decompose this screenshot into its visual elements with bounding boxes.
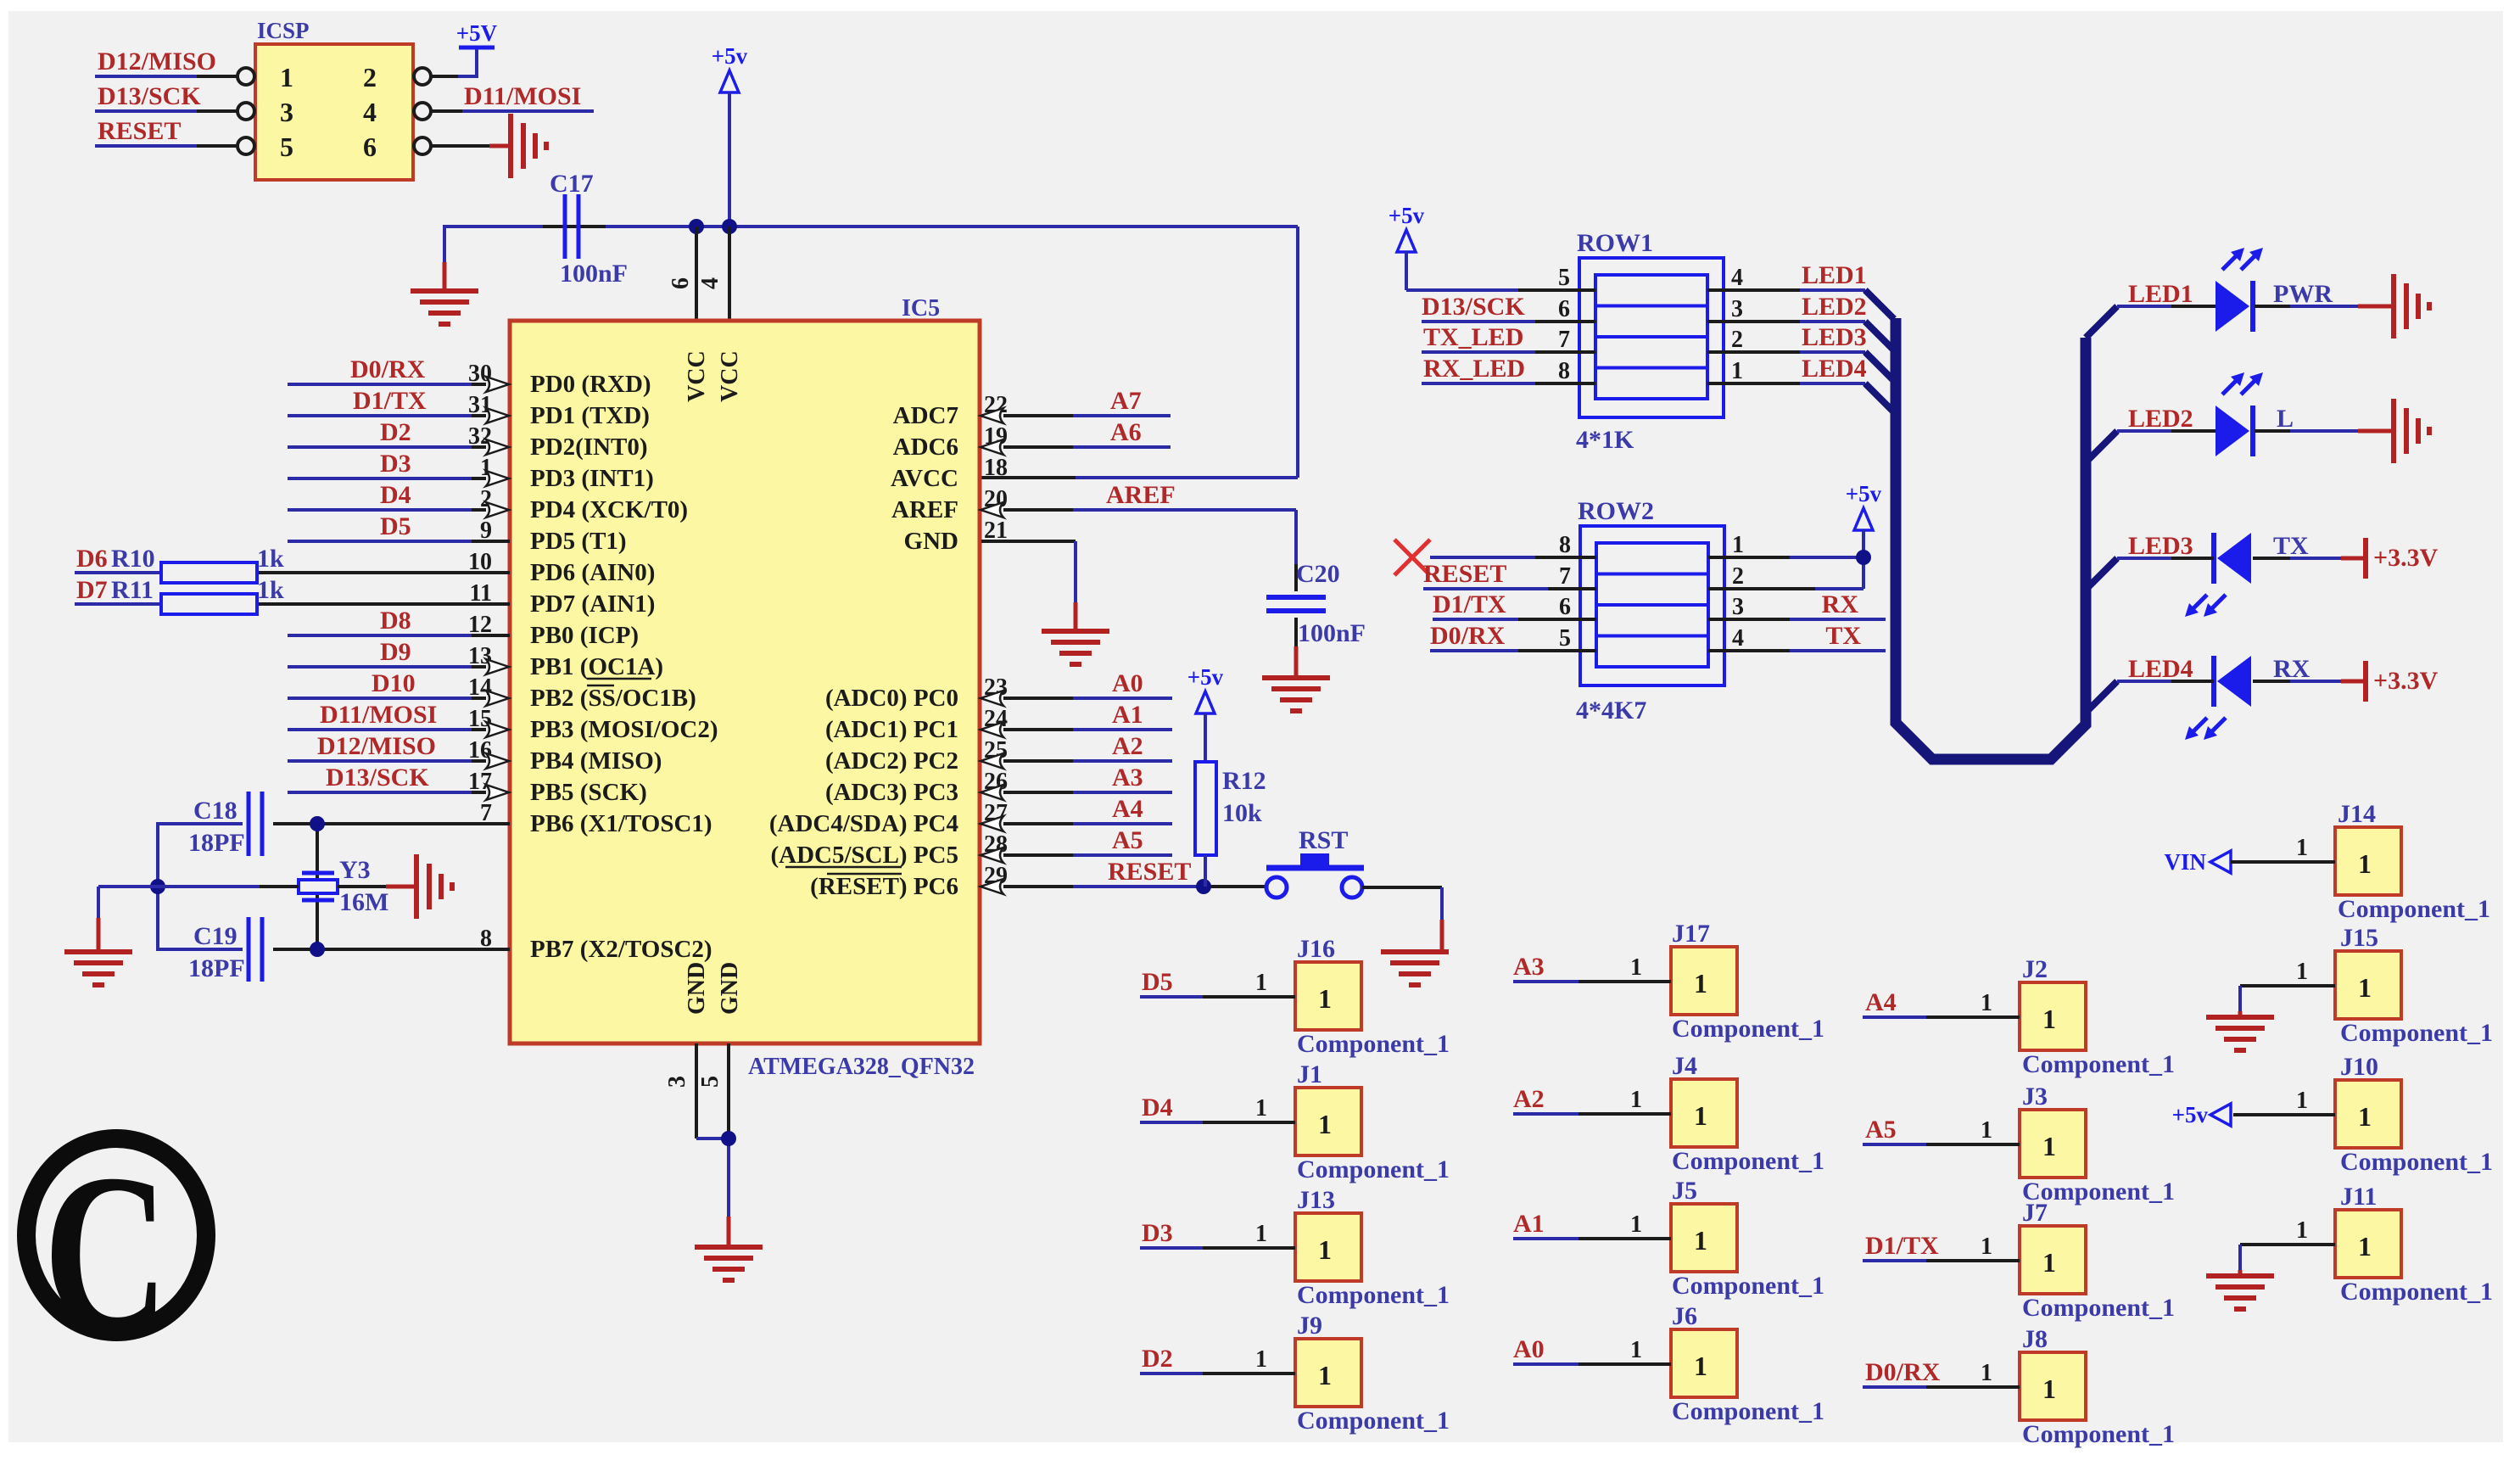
wire net D12/MISO (to PB4)	[288, 732, 486, 761]
wire net A1	[1003, 701, 1172, 730]
wire net TX (ROW2 pin 4)	[1708, 622, 1886, 651]
ground (below C17)	[411, 291, 478, 324]
svg-text:+3.3V: +3.3V	[2373, 544, 2439, 572]
svg-text:GND: GND	[904, 528, 958, 555]
capacitor C20	[1266, 560, 1366, 647]
resistor network ROW1	[1558, 229, 1743, 454]
svg-text:IC5: IC5	[902, 295, 940, 322]
no-connect X (ROW2 pin 8)	[1394, 540, 1596, 575]
svg-text:1: 1	[1255, 970, 1267, 996]
wire J11 to ground	[2240, 1217, 2335, 1276]
wire net A2	[1003, 732, 1172, 761]
svg-text:Component_1: Component_1	[1672, 1397, 1824, 1425]
wire net RESET (ICSP pin 5)	[95, 117, 237, 146]
svg-text:8: 8	[1558, 358, 1570, 384]
svg-text:(ADC5/SCL) PC5: (ADC5/SCL) PC5	[770, 842, 958, 869]
svg-text:LED2: LED2	[2128, 405, 2193, 433]
svg-text:PB2 (SS/OC1B): PB2 (SS/OC1B)	[530, 685, 696, 712]
wire net LED2 (ROW1 pin 3)	[1707, 293, 1867, 322]
svg-text:D9: D9	[380, 638, 411, 666]
svg-text:PB5 (SCK): PB5 (SCK)	[530, 779, 647, 806]
svg-text:ROW2: ROW2	[1578, 497, 1654, 525]
wire net D13/SCK (to PB5)	[288, 764, 486, 792]
svg-text:A1: A1	[1112, 701, 1143, 729]
wire net D12/MISO (ICSP pin 1)	[95, 48, 237, 76]
capacitor C19	[188, 917, 262, 982]
svg-text:J6: J6	[1672, 1302, 1697, 1330]
svg-text:LED3: LED3	[2128, 532, 2193, 560]
svg-text:3: 3	[1731, 296, 1743, 322]
pin number 6	[668, 277, 694, 289]
wire net LED4 (ROW1 pin 1)	[1707, 355, 1867, 383]
svg-text:R11: R11	[111, 576, 154, 604]
svg-text:J11: J11	[2340, 1183, 2377, 1211]
svg-text:TX_LED: TX_LED	[1423, 323, 1523, 351]
svg-text:4*1K: 4*1K	[1576, 426, 1634, 454]
wire net D4 (to J1)	[1140, 1094, 1295, 1122]
svg-text:A6: A6	[1110, 418, 1142, 446]
svg-text:LED3: LED3	[1802, 323, 1867, 351]
svg-text:Component_1: Component_1	[2340, 1019, 2493, 1047]
svg-text:1: 1	[2296, 959, 2308, 985]
svg-text:+5v: +5v	[1389, 203, 1425, 228]
svg-text:Component_1: Component_1	[1672, 1147, 1824, 1175]
svg-text:RST: RST	[1299, 826, 1348, 854]
svg-text:RX: RX	[2273, 655, 2310, 683]
wire net D1/TX (ROW2 pin 6)	[1433, 590, 1596, 619]
connector J14	[2335, 800, 2490, 923]
wire net D2	[288, 418, 486, 447]
wire net XTAL2 (PB7)	[158, 887, 510, 951]
svg-text:1: 1	[2042, 1004, 2056, 1034]
power +5v (ROW1 pin 5)	[1389, 203, 1595, 290]
connector J7	[2020, 1199, 2175, 1322]
svg-text:VCC: VCC	[684, 350, 710, 402]
svg-text:Component_1: Component_1	[2022, 1050, 2175, 1078]
wire net A0	[1003, 669, 1172, 698]
wire net A3	[1003, 764, 1172, 792]
svg-text:4: 4	[1732, 625, 1744, 652]
svg-text:PB7 (X2/TOSC2): PB7 (X2/TOSC2)	[530, 936, 712, 963]
wire IC GND pins 3 and 5	[696, 1043, 729, 1247]
svg-text:Component_1: Component_1	[2022, 1420, 2175, 1448]
svg-text:LED4: LED4	[1802, 355, 1867, 383]
junction node GND pins	[721, 1131, 736, 1146]
svg-text:1: 1	[1630, 1087, 1642, 1113]
svg-text:VCC: VCC	[717, 350, 743, 402]
svg-text:1: 1	[1318, 1234, 1332, 1265]
svg-text:D3: D3	[1142, 1219, 1173, 1247]
svg-text:AREF: AREF	[1106, 481, 1176, 509]
svg-text:D10: D10	[372, 669, 416, 697]
svg-text:PB0 (ICP): PB0 (ICP)	[530, 622, 639, 649]
wire RST to ground	[1362, 887, 1442, 952]
svg-text:100nF: 100nF	[560, 260, 628, 288]
svg-text:1: 1	[2358, 848, 2372, 879]
wire net D4	[288, 481, 486, 510]
svg-text:(ADC4/SDA) PC4: (ADC4/SDA) PC4	[769, 810, 958, 837]
svg-text:1: 1	[1694, 1100, 1707, 1131]
power +5v (above R12)	[1187, 664, 1224, 762]
svg-text:TX: TX	[1825, 622, 1861, 650]
connector J16	[1295, 935, 1450, 1058]
svg-text:10k: 10k	[1222, 799, 1262, 827]
svg-text:J1: J1	[1297, 1060, 1322, 1088]
wire crystal vertical link	[316, 824, 319, 949]
wire net RX (ROW2 pin 3)	[1708, 590, 1886, 619]
svg-text:PB3 (MOSI/OC2): PB3 (MOSI/OC2)	[530, 716, 718, 743]
svg-text:7: 7	[1559, 563, 1571, 590]
svg-text:J2: J2	[2022, 955, 2048, 983]
power +5v (above IC)	[712, 43, 748, 227]
svg-text:A7: A7	[1110, 387, 1142, 415]
led LED4 RX	[2117, 655, 2364, 740]
svg-text:6: 6	[1558, 296, 1570, 322]
svg-text:Component_1: Component_1	[1672, 1015, 1824, 1043]
power +3.3V (LED4)	[2366, 661, 2439, 702]
connector J8	[2020, 1325, 2175, 1448]
svg-text:A1: A1	[1513, 1210, 1545, 1238]
power VIN (to J14)	[2164, 835, 2335, 875]
svg-text:J3: J3	[2022, 1083, 2048, 1111]
wire net RX_LED (ROW1 pin 8)	[1422, 355, 1595, 383]
svg-text:D13/SCK: D13/SCK	[1422, 293, 1525, 321]
svg-text:+5v: +5v	[712, 43, 748, 69]
svg-text:PB1 (OC1A): PB1 (OC1A)	[530, 653, 663, 680]
svg-text:1: 1	[1630, 1337, 1642, 1363]
wire net A2 (to J4)	[1513, 1085, 1671, 1114]
svg-text:5: 5	[1558, 265, 1570, 291]
svg-text:ICSP: ICSP	[257, 18, 310, 43]
wire net D13/SCK (ROW1 pin 6)	[1422, 293, 1595, 322]
led LED2 L	[2117, 372, 2392, 456]
svg-text:8: 8	[1559, 532, 1571, 558]
svg-text:4: 4	[697, 277, 724, 289]
svg-text:3: 3	[664, 1076, 690, 1088]
svg-text:+5v: +5v	[1846, 481, 1882, 506]
svg-text:PD6 (AIN0): PD6 (AIN0)	[530, 559, 655, 586]
svg-text:RESET: RESET	[98, 117, 181, 145]
wire net GND pin 21	[981, 541, 1076, 631]
pin number 5	[697, 1076, 724, 1088]
svg-text:J17: J17	[1672, 920, 1710, 948]
IC5 right pin names and numbers	[769, 392, 1008, 900]
svg-text:D11/MOSI: D11/MOSI	[320, 701, 437, 729]
bus LED1-LED4 trunk	[1865, 290, 2117, 759]
svg-text:RESET: RESET	[1423, 560, 1506, 588]
svg-text:Component_1: Component_1	[1672, 1272, 1824, 1300]
svg-text:+3.3V: +3.3V	[2373, 667, 2439, 695]
svg-text:J5: J5	[1672, 1177, 1697, 1205]
svg-text:(ADC1) PC1: (ADC1) PC1	[825, 716, 958, 743]
svg-text:1: 1	[2042, 1131, 2056, 1161]
svg-text:(ADC3) PC3: (ADC3) PC3	[825, 779, 958, 806]
svg-text:1: 1	[1255, 1221, 1267, 1247]
svg-text:3: 3	[280, 97, 293, 127]
svg-text:+5v: +5v	[1187, 664, 1224, 690]
svg-text:C17: C17	[550, 170, 594, 198]
connector J5	[1671, 1177, 1824, 1300]
ground (LED2)	[2394, 399, 2429, 463]
svg-text:6: 6	[1559, 594, 1571, 620]
connector J9	[1295, 1312, 1450, 1435]
resistor R10	[161, 545, 284, 583]
svg-text:A4: A4	[1865, 988, 1897, 1016]
svg-text:J10: J10	[2340, 1053, 2378, 1081]
svg-text:D8: D8	[380, 607, 411, 635]
svg-text:Component_1: Component_1	[1297, 1407, 1450, 1435]
led LED1 PWR	[2117, 248, 2392, 332]
svg-text:18: 18	[984, 455, 1008, 481]
svg-text:Component_1: Component_1	[2338, 895, 2490, 923]
connector ICSP	[237, 18, 431, 180]
wire net LED3 (ROW1 pin 2)	[1707, 323, 1867, 352]
pin number 4	[697, 277, 724, 289]
svg-text:D7: D7	[76, 576, 108, 604]
wire net D0/RX (ROW2 pin 5)	[1430, 622, 1596, 651]
svg-text:D12/MISO: D12/MISO	[317, 732, 436, 760]
svg-text:2: 2	[1731, 327, 1743, 353]
wire net D1/TX (to J7)	[1863, 1232, 2020, 1261]
svg-text:1: 1	[1694, 1351, 1707, 1381]
connector J2	[2020, 955, 2175, 1078]
wire net D13/SCK (ICSP pin 3)	[95, 82, 237, 111]
ground (LED1)	[2394, 274, 2429, 338]
wire net A7	[1003, 387, 1171, 416]
svg-text:100nF: 100nF	[1298, 619, 1366, 647]
svg-text:D0/RX: D0/RX	[1430, 622, 1506, 650]
svg-text:C19: C19	[193, 922, 237, 950]
svg-text:1: 1	[2042, 1373, 2056, 1404]
wire net A0 (to J6)	[1513, 1335, 1671, 1364]
svg-text:J14: J14	[2338, 800, 2376, 828]
svg-text:2: 2	[363, 62, 377, 92]
connector J6	[1671, 1302, 1824, 1425]
svg-text:1: 1	[1255, 1346, 1267, 1373]
svg-text:1: 1	[1318, 983, 1332, 1014]
svg-text:+5v: +5v	[2172, 1102, 2209, 1127]
ground (IC pin 21)	[1042, 631, 1109, 664]
power +5v (to J10)	[2172, 1088, 2335, 1127]
wire R12 to RESET net	[1204, 855, 1207, 887]
wire to crystal left ground	[98, 887, 158, 952]
svg-text:PD2(INT0): PD2(INT0)	[530, 434, 648, 461]
junction node PB7-crystal	[310, 942, 325, 957]
wire net D5	[288, 512, 510, 541]
ground (J15)	[2206, 1017, 2274, 1050]
wire net LED1 (ROW1 pin 4)	[1707, 261, 1867, 290]
wire net D10	[288, 669, 486, 698]
wire net D0/RX (to J8)	[1863, 1358, 2020, 1387]
connector J15	[2335, 924, 2493, 1047]
pushbutton RST	[1266, 826, 1364, 898]
svg-text:1: 1	[1731, 358, 1743, 384]
svg-text:D2: D2	[380, 418, 411, 446]
svg-text:4: 4	[1731, 265, 1743, 291]
svg-text:RX: RX	[1822, 590, 1859, 618]
svg-text:A0: A0	[1513, 1335, 1545, 1363]
svg-text:1: 1	[1630, 954, 1642, 981]
svg-text:D2: D2	[1142, 1345, 1173, 1373]
svg-text:AVCC: AVCC	[891, 465, 958, 492]
svg-text:VIN: VIN	[2164, 849, 2206, 875]
wire net D1/TX	[288, 387, 486, 416]
connector J1	[1295, 1060, 1450, 1183]
ground (crystal case)	[416, 854, 452, 919]
svg-text:1: 1	[1694, 1225, 1707, 1256]
svg-text:D13/SCK: D13/SCK	[326, 764, 429, 792]
wire net D11/MOSI (ICSP pin 4)	[431, 82, 594, 111]
connector J4	[1671, 1052, 1824, 1175]
svg-text:1: 1	[2296, 1088, 2308, 1114]
svg-text:PD7 (AIN1): PD7 (AIN1)	[530, 590, 655, 618]
svg-text:AREF: AREF	[891, 496, 958, 523]
svg-text:18PF: 18PF	[188, 829, 245, 857]
svg-text:7: 7	[1558, 327, 1570, 353]
resistor R12	[1195, 762, 1266, 855]
svg-text:C18: C18	[193, 797, 237, 825]
svg-text:(ADC2) PC2: (ADC2) PC2	[825, 747, 958, 775]
wire net A1 (to J5)	[1513, 1210, 1671, 1239]
svg-text:Y3: Y3	[339, 856, 371, 884]
IC5 left pin names and numbers	[468, 361, 718, 963]
svg-text:3: 3	[1732, 594, 1744, 620]
ground (below C20)	[1262, 678, 1330, 711]
svg-text:D1/TX: D1/TX	[1433, 590, 1506, 618]
wire net D2 (to J9)	[1140, 1345, 1295, 1373]
wire net A4	[1003, 795, 1172, 824]
svg-text:D12/MISO: D12/MISO	[98, 48, 216, 76]
svg-text:D1/TX: D1/TX	[1865, 1232, 1939, 1260]
svg-text:TX: TX	[2273, 532, 2309, 560]
svg-text:D0/RX: D0/RX	[1865, 1358, 1941, 1386]
svg-text:J8: J8	[2022, 1325, 2048, 1353]
wire net AREF	[1003, 481, 1296, 591]
wire net A5	[1003, 826, 1172, 855]
junction node C18/C19 ground	[150, 879, 165, 894]
wire net A3 (to J17)	[1513, 953, 1671, 982]
svg-text:1: 1	[1981, 990, 1992, 1016]
wire net D7 with resistor feed	[75, 576, 510, 604]
capacitor C17	[550, 170, 628, 288]
wire net D3 (to J13)	[1140, 1219, 1295, 1248]
svg-text:4: 4	[363, 97, 377, 127]
svg-text:J13: J13	[1297, 1186, 1335, 1214]
wire crystal case ground	[158, 885, 415, 888]
svg-text:D4: D4	[380, 481, 411, 509]
svg-text:C: C	[43, 1127, 169, 1374]
svg-text:PB4 (MISO): PB4 (MISO)	[530, 747, 662, 775]
svg-text:LED1: LED1	[1802, 261, 1867, 289]
svg-text:D13/SCK: D13/SCK	[98, 82, 201, 110]
svg-text:6: 6	[668, 277, 694, 289]
wire IC pin 4 VCC stub	[728, 227, 731, 321]
junction node VCC pins	[689, 219, 737, 234]
wire net D5 (to J16)	[1140, 968, 1295, 997]
svg-text:R12: R12	[1222, 767, 1266, 795]
svg-text:A2: A2	[1513, 1085, 1545, 1113]
svg-text:(RESET) PC6: (RESET) PC6	[810, 873, 958, 900]
ground (J11)	[2206, 1276, 2274, 1309]
wire net D3	[288, 450, 486, 478]
svg-text:ATMEGA328_QFN32: ATMEGA328_QFN32	[748, 1054, 975, 1080]
wire net D9	[288, 638, 486, 667]
svg-text:PD0 (RXD): PD0 (RXD)	[530, 371, 651, 398]
junction node RESET/R12	[1196, 879, 1211, 894]
wire net +5v rail (C17 to VCC and AVCC)	[444, 225, 1298, 478]
svg-text:A3: A3	[1112, 764, 1143, 792]
svg-text:PD5 (T1): PD5 (T1)	[530, 528, 627, 555]
wire net RESET (ROW2 pin 7)	[1423, 560, 1596, 589]
svg-text:J15: J15	[2340, 924, 2378, 952]
svg-text:1: 1	[2358, 972, 2372, 1003]
capacitor C18	[188, 792, 262, 857]
svg-text:1: 1	[280, 62, 293, 92]
svg-text:Component_1: Component_1	[1297, 1030, 1450, 1058]
ground (crystal circuit)	[64, 952, 132, 985]
svg-text:(ADC0) PC0: (ADC0) PC0	[825, 685, 958, 712]
connector J10	[2335, 1053, 2493, 1176]
wire net A6	[1003, 418, 1171, 447]
svg-text:PD4 (XCK/T0): PD4 (XCK/T0)	[530, 496, 688, 523]
connector J17	[1671, 920, 1824, 1043]
wire net D6 with resistor feed	[75, 545, 510, 573]
ground (IC bottom)	[695, 1247, 763, 1280]
power +3.3V (LED3)	[2366, 538, 2439, 579]
svg-text:A5: A5	[1865, 1116, 1897, 1144]
svg-text:LED1: LED1	[2128, 280, 2193, 308]
svg-text:D6: D6	[76, 545, 108, 573]
ground (ICSP pin 6)	[431, 114, 546, 178]
power +5v (ROW2 pins 1-2)	[1708, 481, 1882, 589]
svg-text:6: 6	[363, 131, 377, 162]
svg-text:D5: D5	[380, 512, 411, 540]
power +5V (ICSP pin 2)	[431, 20, 498, 78]
svg-text:Component_1: Component_1	[1297, 1281, 1450, 1309]
svg-text:J7: J7	[2022, 1199, 2048, 1227]
svg-text:A0: A0	[1112, 669, 1143, 697]
svg-text:1k: 1k	[257, 576, 284, 604]
svg-text:18PF: 18PF	[188, 954, 245, 982]
svg-text:RESET: RESET	[1108, 858, 1191, 886]
svg-text:D5: D5	[1142, 968, 1173, 996]
svg-text:Component_1: Component_1	[1297, 1155, 1450, 1183]
pin number 3	[664, 1076, 690, 1088]
svg-text:1: 1	[1981, 1234, 1992, 1260]
resistor network ROW2	[1559, 497, 1744, 725]
svg-text:5: 5	[697, 1076, 724, 1088]
svg-text:LED2: LED2	[1802, 293, 1867, 321]
crystal Y3	[299, 856, 388, 916]
junction node PB6-crystal	[310, 816, 325, 831]
svg-text:Component_1: Component_1	[2340, 1148, 2493, 1176]
svg-text:GND: GND	[684, 962, 710, 1015]
wire IC pin 6 VCC stub	[695, 227, 698, 321]
svg-text:L: L	[2277, 405, 2294, 433]
svg-text:16M: 16M	[339, 888, 388, 916]
ic IC5 ATMEGA328_QFN32 body	[510, 295, 980, 1080]
svg-text:ROW1: ROW1	[1577, 229, 1653, 257]
svg-text:1: 1	[2296, 1217, 2308, 1244]
svg-text:A5: A5	[1112, 826, 1143, 854]
svg-text:J9: J9	[1297, 1312, 1322, 1340]
wire net RESET (PC6 to button)	[1003, 858, 1265, 887]
svg-text:Component_1: Component_1	[2340, 1278, 2493, 1306]
wire net D0/RX	[288, 355, 486, 384]
connector J11	[2335, 1183, 2493, 1306]
svg-text:GND: GND	[717, 962, 743, 1015]
svg-text:1: 1	[1694, 968, 1707, 999]
